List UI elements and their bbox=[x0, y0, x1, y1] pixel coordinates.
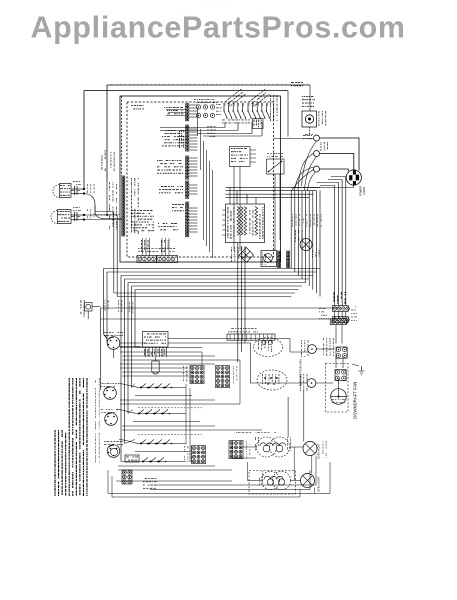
connector SO row 1 bbox=[332, 306, 348, 312]
switch row 2 wires bbox=[117, 410, 139, 414]
broil element labels bbox=[259, 471, 263, 485]
relay labels bbox=[295, 230, 302, 242]
board bottom connector row P3 bbox=[137, 256, 157, 263]
bottom left small circle bbox=[110, 448, 117, 455]
wire wrap drop to ladder4 bbox=[120, 276, 122, 462]
warmer feed lines bbox=[226, 186, 321, 188]
upper element switch dashes bbox=[236, 431, 276, 434]
wire terminal L1 to plug bbox=[320, 138, 359, 171]
surface switch rotary 3 bbox=[105, 413, 118, 426]
connector grid A bbox=[190, 366, 204, 384]
bottom rails bbox=[155, 484, 316, 486]
wire bake to broil vertical bbox=[293, 447, 295, 481]
transformer core circle bbox=[305, 115, 313, 123]
connector P1 strip B bbox=[186, 125, 189, 151]
downdraft top labels bbox=[319, 308, 329, 319]
clock component box bbox=[143, 332, 169, 348]
connector grid B bbox=[216, 366, 230, 388]
label TB near rails bbox=[291, 82, 303, 86]
terminal circle L2 bbox=[314, 166, 320, 172]
strip A wire stubs left bbox=[166, 109, 186, 111]
connector strip D labels bbox=[159, 186, 183, 193]
oven light circle 1 bbox=[303, 442, 317, 456]
wire plug bottom to left rail bbox=[291, 184, 353, 187]
rotary 1 wires bbox=[120, 342, 146, 344]
wire left feed to downdraft B bbox=[251, 343, 308, 383]
wire wide rail 1 bbox=[101, 307, 341, 309]
serial interface labels bbox=[302, 96, 315, 107]
motor box labels bbox=[262, 252, 266, 265]
rotary 1 labels bbox=[104, 332, 123, 336]
wire wrap drop to ladder1 bbox=[131, 286, 133, 388]
wire socket1 links bbox=[71, 188, 84, 190]
connector P1 strip A bbox=[186, 104, 189, 121]
wire downdraft to light1 bbox=[303, 390, 305, 442]
selector switch cluster 1 bbox=[223, 103, 225, 111]
wire nested wrap bus bbox=[104, 268, 321, 270]
interlock block 2x2 upper bbox=[336, 347, 347, 358]
broil element circle pair bbox=[261, 471, 279, 489]
lower mid vertical wires bbox=[185, 384, 187, 444]
bottom dashed box bbox=[249, 471, 296, 495]
warmer element coil 1 bbox=[237, 207, 240, 236]
wire downdraft to bake bbox=[287, 397, 289, 437]
ground symbol right bbox=[359, 366, 365, 375]
wire light1 to light2 bbox=[311, 456, 313, 474]
relay A labels bbox=[301, 340, 308, 357]
plug prong left bbox=[349, 175, 352, 180]
board bottom connector row P4 bbox=[157, 256, 178, 263]
connector strip E labels bbox=[172, 204, 184, 211]
plug prong top bbox=[353, 170, 356, 174]
downdraft fan dashed box bbox=[326, 364, 349, 413]
wire dashed drop x121 bbox=[121, 96, 123, 176]
small connector stack B bbox=[287, 251, 290, 268]
wire labels along x121 bbox=[111, 152, 115, 171]
connector P1 strip B labels bbox=[162, 130, 184, 146]
bake element posts bbox=[263, 445, 270, 452]
connector P1 strip E bbox=[186, 202, 189, 237]
connector grid D bbox=[229, 441, 243, 459]
wire x107 joins strip bbox=[106, 181, 108, 215]
oven light socket 2 body bbox=[58, 210, 72, 224]
wire wide rail 2 bbox=[101, 318, 337, 320]
convection motor lower dashed bbox=[257, 370, 287, 390]
convection motor upper dashed bbox=[254, 338, 283, 357]
junction dots left 1 bbox=[83, 188, 85, 190]
center trio labels bbox=[238, 247, 246, 259]
rotary 3 labels bbox=[101, 409, 118, 413]
power cord plug body bbox=[346, 170, 361, 185]
connector P2 strip (left) bbox=[122, 176, 125, 236]
switch ladder row 1 bbox=[140, 387, 142, 389]
wire wrap drop A to rotary1 bbox=[104, 269, 108, 340]
wire bundle verticals right of strips bbox=[197, 108, 199, 136]
indicator lamp rows bbox=[196, 105, 200, 109]
connector P1 strip D bbox=[186, 181, 189, 198]
switch row 1 wires bbox=[118, 384, 141, 388]
wire left drop x107 bbox=[106, 85, 108, 181]
switch cluster right labels bbox=[270, 95, 277, 121]
bottom mid labels bbox=[143, 478, 157, 489]
transformer box bbox=[302, 111, 317, 127]
switch ladder row 4 bbox=[142, 461, 144, 463]
connector P1 strip A labels bbox=[164, 107, 183, 114]
warmer element coil 1b bbox=[241, 207, 244, 236]
relay component right of sensor bbox=[267, 159, 285, 174]
downdraft fan motor circle bbox=[331, 389, 347, 405]
ladder 3 dashed separator bbox=[138, 434, 202, 436]
wire right drops to power block bbox=[287, 91, 289, 137]
surface switch rotary 1 bbox=[107, 337, 120, 350]
connector grid A labels bbox=[183, 366, 191, 382]
wires from sensor area down bbox=[233, 167, 235, 252]
dashed line to strip left bbox=[95, 214, 121, 216]
notes text block vertical bbox=[55, 378, 88, 496]
wrap bend wire labels bbox=[105, 300, 109, 311]
clock pins down bbox=[145, 347, 147, 357]
warmer element outer box bbox=[226, 204, 265, 243]
wire wide rails left drops bbox=[100, 308, 102, 390]
timer text block inside board bbox=[131, 210, 154, 231]
control board dashed box bbox=[127, 102, 274, 257]
wire socket2 links bbox=[71, 214, 84, 216]
wire labels along x107 bbox=[102, 150, 106, 171]
quad bus top bends bbox=[320, 186, 335, 191]
small connector stack A bbox=[278, 251, 281, 268]
switch row 3 wires bbox=[119, 440, 141, 444]
ladder 1 dashed separator bbox=[138, 407, 202, 409]
warmer feed drop stubs bbox=[229, 187, 231, 204]
svg-text:CORD: CORD bbox=[362, 187, 366, 195]
warmer element coil 2 bbox=[244, 207, 247, 236]
connector P2 labels left bbox=[109, 182, 117, 230]
transformer side labels bbox=[319, 111, 327, 126]
wire wrap drop to ladder3 bbox=[124, 279, 126, 444]
broil wires bbox=[248, 480, 262, 482]
small connector under cluster 2 bbox=[253, 119, 264, 129]
buzzer box below clock bbox=[152, 361, 159, 372]
bake wires bbox=[243, 446, 257, 448]
wire motor2 to rise pair bbox=[95, 211, 114, 213]
wire left drop x84 bbox=[83, 91, 85, 189]
wire mid-left vertical stub bbox=[94, 205, 96, 212]
lower mid horizontal wires bbox=[120, 347, 202, 349]
sensor connector box bbox=[230, 147, 251, 167]
bottom left verticals bbox=[107, 470, 109, 494]
fan motor small labels bbox=[332, 399, 345, 403]
selector switch cluster 2 bbox=[247, 103, 249, 111]
switch cluster 2 top labels bbox=[249, 89, 269, 107]
door switch diamond bbox=[239, 248, 253, 263]
plug prong bottom bbox=[353, 181, 356, 185]
capacitor 2 bbox=[74, 212, 76, 221]
relay motor circle A bbox=[308, 345, 317, 354]
wire wrap rise pair A bbox=[113, 212, 115, 294]
switch ladder row 2 bbox=[138, 413, 140, 415]
bottom right verticals bbox=[315, 456, 317, 486]
relay motor circle B bbox=[307, 379, 316, 388]
relay circle right bbox=[300, 239, 312, 251]
wire wrap drop B to rotary1 bbox=[106, 272, 108, 343]
quad bus labels bbox=[334, 292, 346, 304]
rail tick texture bbox=[112, 84, 308, 86]
connector SO row 2 bbox=[332, 317, 348, 323]
latch switch flat box bbox=[227, 334, 275, 340]
wire terminal N to plug bbox=[320, 154, 354, 171]
connector grid C labels bbox=[184, 446, 192, 462]
wire wrap drop to ladder2 bbox=[127, 283, 129, 414]
bottom small box bbox=[125, 455, 139, 462]
label board id top left bbox=[131, 105, 144, 109]
warmer pin stubs left bbox=[222, 209, 226, 211]
clock pin labels bbox=[144, 349, 165, 356]
broil element posts bbox=[267, 479, 273, 485]
labels near junction bbox=[87, 184, 94, 193]
wire fan from bus to terminals bbox=[302, 141, 317, 186]
downdraft feed wires bbox=[290, 339, 308, 353]
switch cluster 1 top labels bbox=[225, 89, 245, 107]
lamp labels bbox=[194, 99, 217, 103]
door plunger labels bbox=[81, 300, 85, 317]
wire feed to L1 terminal bbox=[274, 138, 314, 140]
svg-text:OVEN LIGHT: OVEN LIGHT bbox=[317, 443, 321, 459]
latch switch labels bbox=[228, 328, 258, 332]
wire stubs from strips right bbox=[189, 104, 198, 106]
connector P1 strip C bbox=[186, 156, 189, 179]
wires clock to right bbox=[168, 338, 290, 340]
cap 1 labels bbox=[73, 181, 81, 185]
wire curve from dot to strip bbox=[84, 194, 122, 219]
wire top rail L1 bbox=[107, 84, 310, 86]
feed wire label bbox=[305, 133, 313, 136]
lamp wire labels bbox=[207, 126, 216, 137]
wire wrap drop to clock bbox=[134, 290, 136, 348]
bake element labels bbox=[255, 437, 259, 450]
plug prong right bbox=[356, 175, 359, 181]
strip B pin hatch bbox=[179, 131, 184, 148]
bake element circle pair bbox=[257, 437, 277, 457]
grid D labels bbox=[246, 441, 250, 459]
board bottom connector labels bbox=[138, 248, 175, 252]
oven light circle 2 bbox=[301, 474, 315, 488]
SO rows side label bbox=[351, 306, 357, 321]
svg-text:AppliancePartsPros.com: AppliancePartsPros.com bbox=[31, 11, 406, 45]
wire center descending trio bbox=[237, 243, 239, 363]
svg-text:OVEN LIGHT: OVEN LIGHT bbox=[317, 476, 321, 492]
warmer element labels bbox=[228, 207, 235, 239]
downdraft connector row top bbox=[330, 319, 346, 325]
rotary 4 labels bbox=[104, 441, 123, 445]
svg-text:…·. ·… .· …. ··… ·…·: …·. ·… .· …. ··… ·…· bbox=[205, 2, 230, 5]
capacitor 1 bbox=[74, 186, 76, 195]
connector P1 strip C labels bbox=[157, 160, 183, 174]
wire socket2 to strip straight bbox=[84, 219, 122, 221]
downdraft internal wires bbox=[335, 356, 337, 368]
downdraft wires from SO bbox=[334, 311, 336, 318]
warmer inner label col bbox=[250, 210, 254, 236]
cap 2 labels bbox=[73, 207, 81, 211]
connector P2 labels right bbox=[131, 178, 139, 234]
surface switch rotary 2 bbox=[104, 387, 117, 400]
diamond labels bbox=[231, 247, 235, 262]
bus labels mid bbox=[292, 214, 322, 227]
wire number labels column bbox=[95, 378, 100, 463]
wires up from P3 P4 bbox=[142, 238, 144, 256]
dashed link transformer to terminal bbox=[309, 127, 311, 135]
wire right quad bus bbox=[334, 190, 336, 306]
wire terminal L2 to plug bbox=[320, 169, 349, 171]
sensor box pins bbox=[250, 149, 256, 151]
wires from switches down-left bbox=[224, 122, 226, 128]
grid B labels bbox=[233, 366, 237, 383]
svg-text:DOWNDRAFT FAN: DOWNDRAFT FAN bbox=[353, 382, 358, 419]
door plunger switch small bbox=[85, 303, 93, 312]
terminal circle L1 bbox=[314, 135, 320, 141]
switch ladder row 3 bbox=[140, 443, 142, 445]
interlock upper labels bbox=[323, 338, 334, 356]
rotary 2 labels bbox=[100, 383, 117, 387]
switch bottom row labels bbox=[222, 120, 250, 124]
fan motor box small bbox=[261, 251, 277, 267]
svg-text:CONVECTION FAN: CONVECTION FAN bbox=[299, 359, 303, 386]
downdraft wires down bbox=[335, 325, 337, 344]
P3 P4 wire labels bbox=[141, 240, 148, 252]
bottom small grid bbox=[122, 470, 132, 484]
junction dots left 2 bbox=[83, 214, 85, 216]
terminal labels bbox=[303, 135, 312, 139]
interlock block 2x2 lower bbox=[335, 370, 346, 381]
connector grid C bbox=[192, 446, 206, 464]
oven light socket 1 body bbox=[60, 184, 72, 198]
control board outer box bbox=[120, 96, 281, 262]
warmer element coil 3 bbox=[255, 207, 258, 236]
wire bottom rail to light2 bbox=[314, 488, 316, 494]
wire bus vertical cluster bbox=[290, 191, 292, 269]
surface switch rotary 4 bbox=[107, 445, 120, 458]
relay B labels bbox=[300, 374, 307, 391]
wire wrap rise pair B bbox=[116, 215, 118, 297]
terminal circle N bbox=[314, 151, 320, 157]
wire top rail N bbox=[84, 90, 288, 92]
